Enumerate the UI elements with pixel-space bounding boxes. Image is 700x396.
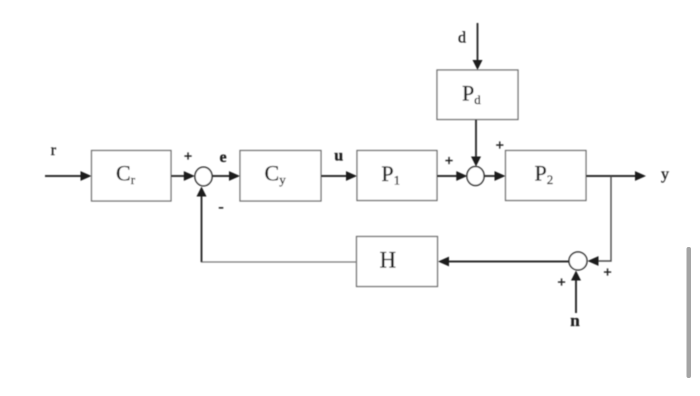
svg-text:d: d <box>458 29 466 46</box>
summing junction S3 <box>569 252 587 270</box>
svg-text:r: r <box>51 142 57 159</box>
svg-text:+: + <box>603 265 612 281</box>
wire Cr to S1 <box>171 175 186 177</box>
block P1 <box>357 151 437 201</box>
svg-text:+: + <box>445 154 454 170</box>
block H <box>357 237 438 287</box>
wire Cy to P1 <box>321 175 348 177</box>
svg-text:u: u <box>334 148 343 165</box>
wire branch from output down <box>597 176 611 261</box>
wire Pd to S2 <box>475 120 477 159</box>
block Cr <box>92 151 172 202</box>
block P2 <box>506 151 587 201</box>
summing junction S2 <box>467 167 484 186</box>
wire S1 to Cy <box>212 175 231 177</box>
scrollbar thumb <box>687 247 692 378</box>
svg-text:y: y <box>661 166 669 183</box>
block Pd <box>437 70 518 120</box>
wire n input <box>575 280 577 314</box>
svg-text:-: - <box>218 198 223 215</box>
wire H feedback to S1 <box>202 188 357 262</box>
wire P2 output to y <box>586 175 637 177</box>
svg-text:e: e <box>220 149 227 166</box>
block Cy <box>240 151 321 202</box>
wire P1 to S2 <box>437 175 459 177</box>
svg-text:H: H <box>380 248 397 273</box>
wire d input <box>477 23 479 61</box>
wire S3 to H <box>447 261 569 263</box>
wire S2 to P2 <box>484 175 497 177</box>
svg-text:n: n <box>570 311 580 330</box>
summing junction S1 <box>195 167 212 186</box>
svg-text:+: + <box>496 138 505 154</box>
svg-text:+: + <box>184 149 193 165</box>
svg-text:+: + <box>557 275 566 291</box>
wire r input <box>45 175 82 177</box>
